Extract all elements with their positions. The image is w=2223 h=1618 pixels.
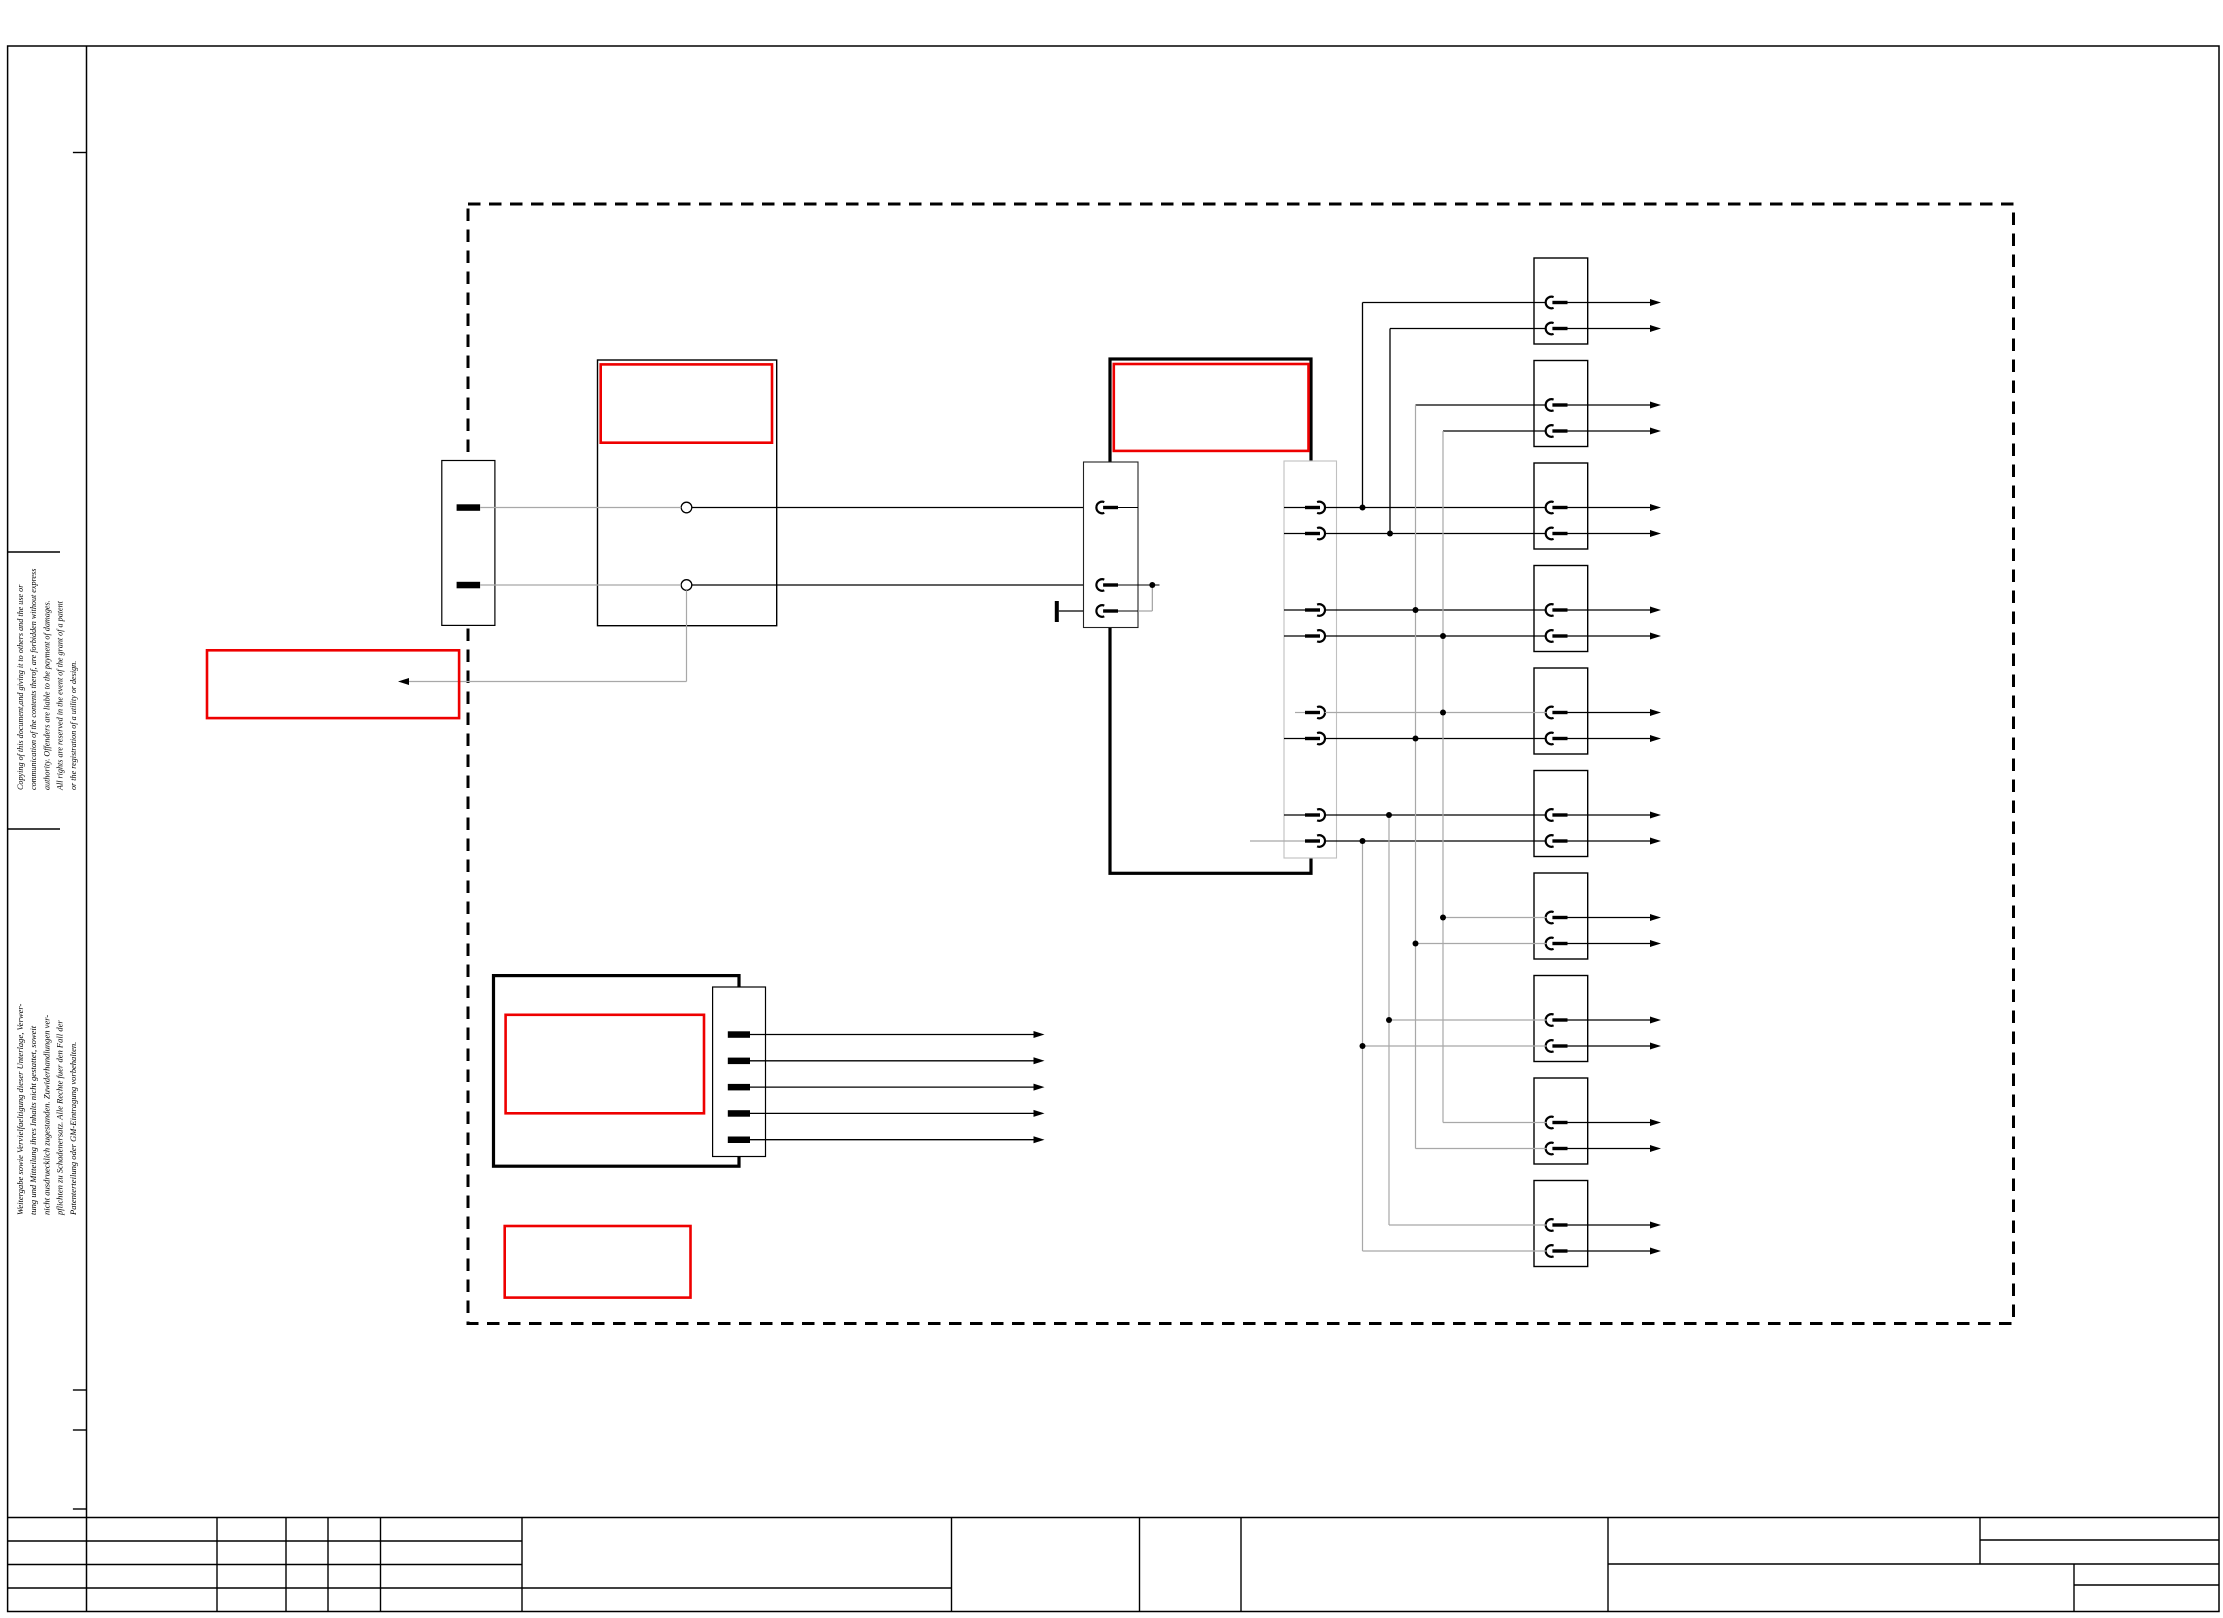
pin -XS4:1 — [1546, 604, 1554, 616]
connector -XS1 body — [1534, 258, 1588, 344]
connector -X3 body — [1284, 461, 1337, 858]
wire feed -XS2:2 — [1443, 430, 1547, 432]
svg-text:nicht ausdruecklich zugestande: nicht ausdruecklich zugestanden. Zuwider… — [41, 1015, 51, 1215]
wire -X1:1 to U1:1 — [480, 507, 681, 509]
output arrow -XS7:2 — [1650, 940, 1661, 947]
wire feed lower y1122 — [1443, 1122, 1547, 1124]
wire -X3 row y533 — [1325, 533, 1547, 535]
pin -X3:2 — [1284, 533, 1305, 535]
pin -X1:1 — [457, 504, 481, 511]
wire feed lower y917 — [1443, 917, 1547, 919]
wire -X4:3 output — [750, 1086, 1034, 1088]
output arrow -X4:5 — [1034, 1136, 1045, 1143]
enclosure boundary (dashed) — [468, 204, 2014, 1324]
pin -XS1:2 — [1546, 323, 1554, 335]
pin -X3:4 — [1284, 635, 1305, 637]
svg-text:Patenterteilung oder GM-Eintra: Patenterteilung oder GM-Eintragung vorbe… — [68, 1042, 78, 1216]
wire -X3 row y815 — [1325, 814, 1547, 816]
output arrow -XS10:1 — [1650, 1222, 1661, 1229]
wire -X1:2 to U1:2 — [480, 584, 681, 586]
svg-text:Weitergabe sowie Vervielfaelti: Weitergabe sowie Vervielfaeltigung diese… — [15, 1003, 25, 1215]
output arrow -XS10:2 — [1650, 1248, 1661, 1255]
output arrow -XS4:1 — [1650, 607, 1661, 614]
svg-text:or the registration of a utili: or the registration of a utility or desi… — [69, 661, 78, 790]
wire vertical to -XS1:2 — [1389, 329, 1391, 534]
output arrow -X4:2 — [1034, 1057, 1045, 1064]
pin -XS3:1 — [1546, 502, 1554, 514]
pin -XS3:2 — [1546, 528, 1554, 540]
red annotation frame (destination) — [207, 650, 459, 718]
connector -XS5 body — [1534, 668, 1588, 754]
wire -X3 row y507 — [1325, 507, 1547, 509]
svg-text:communication of the contents: communication of the contents therof, ar… — [29, 569, 38, 790]
output arrow -XS3:1 — [1650, 504, 1661, 511]
junction (1443,917) — [1440, 915, 1446, 921]
terminal circle U1:2 — [681, 580, 692, 591]
connector -XS8 body — [1534, 976, 1588, 1062]
pin -XS1:1 — [1546, 297, 1554, 309]
output arrow -XS2:2 — [1650, 428, 1661, 435]
junction (1362,841) — [1360, 838, 1366, 844]
wire -XS7:1 output — [1568, 917, 1651, 919]
pin -XS7:2 — [1546, 938, 1554, 950]
wire vertical bus a — [1415, 405, 1417, 1149]
pin -XS6:1 — [1546, 809, 1554, 821]
jumper -X2:2 stub — [1118, 584, 1160, 586]
wire -XS2:2 output — [1568, 430, 1651, 432]
junction (1415,738) — [1413, 736, 1419, 742]
connector -XS6 body — [1534, 771, 1588, 857]
output arrow -XS9:1 — [1650, 1119, 1661, 1126]
title block top border — [8, 1517, 2219, 1519]
pin -X3:3 — [1284, 609, 1305, 611]
connector -X4 body — [713, 987, 766, 1157]
wire feed lower y1251 — [1363, 1250, 1547, 1252]
frame row tick 2 — [73, 1389, 87, 1391]
wire -XS2:1 output — [1568, 404, 1651, 406]
output arrow -XS1:1 — [1650, 299, 1661, 306]
output arrow -XS5:2 — [1650, 735, 1661, 742]
frame left margin column line — [86, 46, 88, 1612]
pin -X4:3 — [728, 1084, 750, 1091]
svg-text:All rights are reserved in the: All rights are reserved in the event of … — [56, 600, 65, 791]
device box U1 — [598, 360, 777, 626]
wire bar to -X2:3 — [1059, 610, 1097, 612]
pin -X4:1 — [728, 1031, 750, 1038]
wire -XS8:1 output — [1568, 1019, 1651, 1021]
output arrow -XS1:2 — [1650, 325, 1661, 332]
connector -XS9 body — [1534, 1078, 1588, 1164]
output arrow -XS2:1 — [1650, 402, 1661, 409]
output arrow -XS8:2 — [1650, 1043, 1661, 1050]
wire -XS5:1 output — [1568, 712, 1651, 714]
wire vertical bus c — [1388, 815, 1390, 1225]
junction (1389,1020) — [1386, 1017, 1392, 1023]
wire feed lower y1046 — [1363, 1045, 1547, 1047]
pin -X3:1 — [1284, 507, 1305, 509]
connector -X2 body — [1084, 462, 1139, 628]
wire -X4:2 output — [750, 1060, 1034, 1062]
connector -XS10 body — [1534, 1181, 1588, 1267]
connector -XS7 body — [1534, 873, 1588, 959]
junction (1443,712) — [1440, 710, 1446, 716]
pin -X4:5 — [728, 1137, 750, 1144]
wire -X3 row y712 (gray) — [1325, 712, 1547, 714]
wire -X4:4 output — [750, 1112, 1034, 1114]
pin -XS10:2 — [1546, 1245, 1554, 1257]
output arrow -XS6:1 — [1650, 812, 1661, 819]
wire -X3 row y738 — [1325, 738, 1547, 740]
wire -X4:5 output — [750, 1139, 1034, 1141]
junction (1415,943) — [1413, 941, 1419, 947]
wire end bar (potential) — [1055, 601, 1059, 622]
red annotation frame in A1 — [1114, 364, 1309, 451]
wire U1:2 drop — [686, 590, 688, 681]
wire vertical to -XS1:1 — [1362, 303, 1364, 508]
wire -XS3:2 output — [1568, 533, 1651, 535]
pin -XS5:2 — [1546, 733, 1554, 745]
copyright notice (english) rotated — [16, 569, 78, 791]
output arrow -X4:3 — [1034, 1084, 1045, 1091]
wire -XS9:2 output — [1568, 1148, 1651, 1150]
copyright notice (german) rotated — [15, 1003, 78, 1216]
pin -XS8:1 — [1546, 1014, 1554, 1026]
connector -XS4 body — [1534, 566, 1588, 652]
junction (1362,1046) — [1360, 1043, 1366, 1049]
wire -XS9:1 output — [1568, 1122, 1651, 1124]
pin -XS9:2 — [1546, 1143, 1554, 1155]
pin -XS2:1 — [1546, 399, 1554, 411]
wire feed lower y1020 — [1389, 1019, 1547, 1021]
red annotation frame (lower note) — [505, 1226, 691, 1298]
wire feed -XS2:1 — [1416, 404, 1547, 406]
destination arrow — [398, 678, 409, 685]
output arrow -XS9:2 — [1650, 1145, 1661, 1152]
pin -XS9:1 — [1546, 1117, 1554, 1129]
pin -X1:2 — [457, 582, 481, 589]
jumper to pin3 — [1138, 610, 1152, 612]
wire -XS7:2 output — [1568, 943, 1651, 945]
copyright text divider bottom — [8, 828, 60, 830]
pin -XS6:2 — [1546, 835, 1554, 847]
junction (1415,610) — [1413, 607, 1419, 613]
wire -XS6:2 output — [1568, 840, 1651, 842]
svg-text:Copying of this document,and g: Copying of this document,and giving it t… — [16, 584, 25, 790]
wire feed -XS1:2 — [1390, 328, 1547, 330]
title block grid — [216, 1518, 218, 1612]
wire -XS6:1 output — [1568, 814, 1651, 816]
terminal circle U1:1 — [681, 502, 692, 513]
device box A1 (thick) — [1110, 359, 1311, 873]
output arrow -X4:4 — [1034, 1110, 1045, 1117]
wire U1:2 to -X2:2 — [692, 584, 1097, 586]
wire -XS5:2 output — [1568, 738, 1651, 740]
wire -XS10:2 output — [1568, 1250, 1651, 1252]
wire feed lower y1148 — [1416, 1148, 1547, 1150]
output arrow -XS6:2 — [1650, 838, 1661, 845]
wire vertical bus d — [1362, 841, 1364, 1251]
pin -X3:8 — [1250, 840, 1305, 842]
frame row tick 1 — [73, 152, 87, 154]
wire vertical bus b — [1442, 431, 1444, 1123]
junction (1390,533) — [1387, 531, 1393, 537]
output arrow -XS7:1 — [1650, 914, 1661, 921]
wire -XS10:1 output — [1568, 1224, 1651, 1226]
copyright text divider top — [8, 551, 60, 553]
connector -X1 body — [442, 461, 495, 626]
svg-text:authority. Offenders are liabl: authority. Offenders are liable to the p… — [42, 600, 51, 790]
connector -XS2 body — [1534, 361, 1588, 447]
wire U1:1 to -X2:1 — [692, 507, 1097, 509]
output arrow -XS4:2 — [1650, 633, 1661, 640]
junction jumper — [1149, 582, 1155, 588]
pin -XS10:1 — [1546, 1219, 1554, 1231]
pin -X3:6 — [1284, 738, 1305, 740]
wire -XS4:2 output — [1568, 635, 1651, 637]
frame row tick 3 — [73, 1429, 87, 1431]
pin -XS7:1 — [1546, 912, 1554, 924]
wire feed lower y943 — [1416, 943, 1547, 945]
output arrow -XS3:2 — [1650, 530, 1661, 537]
wire -X3 row y610 — [1325, 609, 1547, 611]
output arrow -XS8:1 — [1650, 1017, 1661, 1024]
wire -XS8:2 output — [1568, 1045, 1651, 1047]
svg-text:pflichten zu Schadenersatz. Al: pflichten zu Schadenersatz. Alle Rechte … — [55, 1020, 65, 1216]
wire -XS4:1 output — [1568, 609, 1651, 611]
wire -X4:1 output — [750, 1034, 1034, 1036]
pin -XS5:1 — [1546, 707, 1554, 719]
output arrow -X4:1 — [1034, 1031, 1045, 1038]
red annotation frame in A2 — [506, 1015, 704, 1114]
wire -XS1:2 output — [1568, 328, 1651, 330]
wire -X3 row y841 — [1325, 840, 1547, 842]
pin -X2:1 — [1096, 502, 1104, 514]
wire feed -XS1:1 — [1363, 302, 1547, 304]
pin -X4:2 — [728, 1058, 750, 1065]
junction (1362,507) — [1360, 505, 1366, 511]
connector -XS3 body — [1534, 463, 1588, 549]
pin -XS4:2 — [1546, 630, 1554, 642]
wire to destination arrow — [409, 681, 687, 683]
junction (1389,815) — [1386, 812, 1392, 818]
svg-text:tung und Mitteilung ihres Inha: tung und Mitteilung ihres Inhalts nicht … — [28, 1025, 38, 1215]
red annotation frame in U1 — [601, 364, 772, 442]
device box A2 (thick) — [494, 976, 740, 1167]
pin -X3:7 — [1284, 814, 1305, 816]
pin -X4:4 — [728, 1110, 750, 1117]
wire feed lower y1225 — [1389, 1224, 1547, 1226]
frame row tick 4 — [73, 1508, 87, 1510]
pin -X2:3 — [1096, 605, 1104, 617]
output arrow -XS5:1 — [1650, 709, 1661, 716]
wire -X3 row y636 — [1325, 635, 1547, 637]
pin -XS2:2 — [1546, 425, 1554, 437]
wire -XS3:1 output — [1568, 507, 1651, 509]
pin -X2:2 — [1096, 579, 1104, 591]
jumper vertical — [1151, 585, 1153, 611]
pin -X3:5 — [1295, 712, 1305, 714]
junction (1443,636) — [1440, 633, 1446, 639]
wire -XS1:1 output — [1568, 302, 1651, 304]
pin -XS8:2 — [1546, 1040, 1554, 1052]
